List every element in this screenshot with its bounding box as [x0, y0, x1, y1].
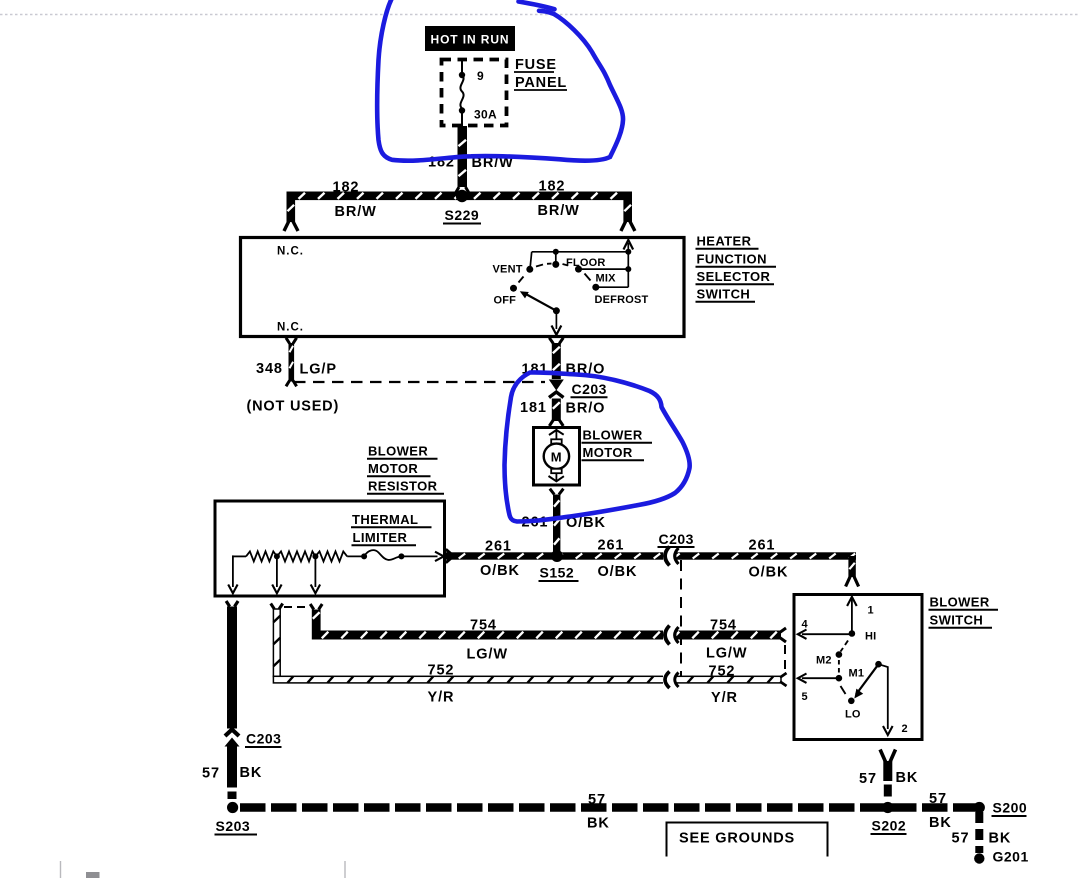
svg-text:SELECTOR: SELECTOR: [697, 269, 771, 284]
svg-text:57: 57: [859, 771, 877, 787]
resistor feed line left: [233, 555, 246, 557]
svg-text:752: 752: [709, 664, 736, 680]
ground G201 dot: [974, 853, 984, 863]
181 lower bottom flare: [549, 420, 563, 426]
bus 261 O/BK horizontal: [445, 552, 856, 559]
dashed connector tie below resistor box: [284, 606, 308, 608]
svg-text:LO: LO: [845, 709, 861, 721]
motor bottom lead: [555, 473, 557, 482]
splice S152: [551, 550, 563, 562]
fuse F9 30A element: [459, 59, 465, 126]
wire 752 stub flare at resistor box: [271, 604, 283, 610]
svg-text:O/BK: O/BK: [749, 565, 789, 581]
blower motor box: [534, 428, 580, 486]
wiper pivot dot: [553, 307, 560, 314]
wire 181 BR/O lower: [552, 399, 561, 422]
wire 348 LG/P (not used): [289, 343, 295, 382]
switch feed arrow up (pin at top right): [624, 240, 634, 250]
resistor element R2: [277, 551, 316, 561]
svg-text:RESISTOR: RESISTOR: [368, 479, 438, 494]
LO contact: [848, 698, 855, 705]
wiper arrowhead: [520, 291, 529, 298]
svg-text:182: 182: [539, 179, 566, 195]
motor body circle M: [544, 444, 569, 469]
dash M2-M1 a: [838, 660, 840, 665]
wire 754 LG/W horizontal: [312, 631, 781, 640]
348 top flare: [286, 338, 297, 344]
heater function selector switch box: [241, 238, 685, 337]
wire 754 stub flare at resistor box: [310, 604, 322, 610]
resistor element R3: [315, 551, 347, 561]
thermal limiter node right: [398, 553, 404, 559]
svg-text:57: 57: [952, 831, 970, 847]
power source label HOT IN RUN: [425, 26, 515, 51]
left leg arrow: [228, 585, 237, 594]
wiper arm: [856, 664, 879, 694]
svg-text:57: 57: [202, 766, 220, 782]
splice S200: [974, 802, 985, 813]
output arrow down at box bottom: [552, 326, 562, 335]
tap node 2: [312, 553, 318, 559]
wire 181 BR/O upper: [552, 343, 561, 379]
FLOOR contact: [552, 261, 559, 268]
connector C203 dashed vertical: [680, 560, 682, 676]
svg-text:S152: S152: [540, 565, 575, 581]
output line to box edge: [401, 555, 437, 557]
svg-text:754: 754: [470, 618, 497, 634]
svg-text:9: 9: [477, 69, 484, 83]
right corner flare: [621, 220, 635, 231]
label S229: [443, 207, 481, 224]
svg-text:BK: BK: [587, 816, 610, 832]
bus wire 182 BR/W horizontal: [287, 192, 633, 201]
svg-text:O/BK: O/BK: [598, 564, 638, 580]
svg-text:M2: M2: [816, 655, 832, 667]
svg-text:N.C.: N.C.: [277, 246, 304, 258]
svg-text:BLOWER: BLOWER: [583, 428, 643, 443]
motor top chevron arrow: [549, 430, 564, 435]
wire 57 BK below switch: [883, 761, 892, 781]
svg-text:752: 752: [428, 663, 455, 679]
node dot on top wire: [553, 249, 559, 255]
blue annotation loop around blower motor: [505, 372, 690, 521]
dashed tie between 754 and 752 flares: [784, 645, 786, 671]
wire 57 BK below switch flare: [880, 750, 895, 763]
wire 752 stub down (outlined): [273, 609, 280, 677]
flare onto S229: [456, 187, 470, 193]
pin 2 arrow down: [883, 726, 893, 735]
rotary arc dash FLOOR-MIX: [563, 264, 569, 266]
svg-text:(NOT USED): (NOT USED): [247, 399, 340, 415]
svg-text:1: 1: [868, 605, 874, 617]
rotary arc dash MIX-DEFROST: [585, 274, 591, 281]
svg-text:BLOWER: BLOWER: [930, 595, 990, 610]
M2 contact: [836, 651, 843, 658]
pin 2 wire: [879, 664, 888, 729]
svg-text:M: M: [551, 449, 562, 464]
blue annotation loop around fuse panel: [377, 0, 623, 161]
tap 1 arrow: [272, 585, 281, 594]
switch pin 1 arrow up: [847, 597, 857, 606]
dash HI-M2 b: [841, 648, 844, 652]
svg-text:FUNCTION: FUNCTION: [697, 252, 767, 267]
tap 2 leg down: [314, 556, 316, 587]
scan artifact gray line left: [60, 861, 62, 878]
wire 57 BK to G201 dashed: [975, 812, 983, 853]
splice S202: [882, 802, 893, 813]
svg-text:754: 754: [710, 618, 737, 634]
svg-text:348: 348: [256, 361, 283, 377]
wiper arrowhead: [854, 689, 863, 699]
node dot top right: [625, 249, 631, 255]
connector C203 dashed line: [294, 381, 545, 383]
wire 57 BK dash above S203: [228, 792, 237, 800]
pin 1 wire: [851, 599, 853, 631]
corner flare to blower switch: [846, 576, 859, 587]
ground bus 57 BK dashed: [240, 803, 979, 811]
svg-text:Y/R: Y/R: [711, 690, 738, 706]
svg-text:Y/R: Y/R: [428, 690, 455, 706]
svg-text:PANEL: PANEL: [515, 75, 567, 91]
svg-text:2: 2: [902, 723, 908, 735]
wiper output line down: [555, 311, 557, 329]
bus right corner wire: [623, 192, 632, 223]
left corner flare: [284, 220, 298, 231]
C203 connector break on 754: [663, 626, 679, 645]
C203 female chevron: [549, 392, 564, 398]
rotary arc dash VENT-FLOOR a: [536, 265, 543, 267]
svg-text:DEFROST: DEFROST: [595, 294, 649, 306]
wire 57 BK dash: [884, 785, 892, 797]
svg-text:SWITCH: SWITCH: [697, 287, 751, 302]
C203 connector break on 261 bus: [663, 547, 679, 566]
wiper arm toward OFF: [524, 293, 556, 311]
label C203: [571, 381, 608, 397]
C203 female chevron on 57 BK: [225, 730, 239, 737]
svg-text:57: 57: [588, 792, 606, 808]
181 upper top flare: [549, 338, 563, 344]
svg-text:LG/W: LG/W: [706, 646, 747, 662]
tap node 1: [274, 553, 280, 559]
svg-text:BR/O: BR/O: [566, 401, 606, 417]
MIX contact: [575, 266, 582, 273]
svg-text:57: 57: [929, 791, 947, 807]
wire 752 Y/R horizontal (outlined): [273, 676, 781, 683]
blower motor resistor label: [367, 444, 444, 494]
svg-text:LG/W: LG/W: [467, 647, 508, 663]
wire 57 BK left flare: [226, 601, 238, 607]
fuse panel dashed box: [442, 60, 507, 126]
bus 261 right corner down: [848, 556, 855, 577]
svg-text:HI: HI: [865, 631, 876, 643]
wire DEFROST contact to right rail: [596, 286, 629, 288]
svg-text:MOTOR: MOTOR: [368, 461, 418, 476]
svg-text:BR/W: BR/W: [335, 204, 377, 220]
wire to thermal limiter: [347, 555, 364, 557]
svg-text:C203: C203: [572, 381, 607, 397]
svg-text:BK: BK: [929, 815, 952, 831]
label C203 lower: [245, 731, 282, 748]
wire 261 motor to S152: [553, 495, 560, 553]
svg-text:BK: BK: [989, 831, 1012, 847]
svg-text:FLOOR: FLOOR: [566, 257, 606, 269]
svg-text:BK: BK: [896, 770, 919, 786]
svg-text:O/BK: O/BK: [480, 563, 520, 579]
svg-text:261: 261: [485, 539, 512, 555]
bus 261 left flare at resistor box: [446, 549, 452, 562]
pin 5 wire: [802, 677, 837, 679]
node dot mid right: [625, 266, 631, 272]
label S203: [215, 818, 258, 835]
pin 4 wire: [802, 633, 850, 635]
wire 261 motor to S152 top flare: [550, 489, 564, 495]
wiper pivot dot: [875, 661, 882, 668]
svg-text:THERMAL: THERMAL: [352, 512, 418, 527]
svg-text:LIMITER: LIMITER: [353, 530, 408, 545]
scan artifact gray square: [86, 872, 100, 878]
blower switch label: [929, 595, 999, 628]
output arrow right: [435, 552, 444, 561]
svg-text:SEE GROUNDS: SEE GROUNDS: [679, 831, 795, 847]
svg-text:182: 182: [333, 180, 360, 196]
motor brush block bottom: [551, 469, 562, 473]
thermal limiter label: [351, 512, 432, 545]
dash HI-M2 a: [845, 641, 848, 646]
HI contact: [849, 630, 856, 637]
svg-text:S202: S202: [872, 818, 907, 834]
svg-text:HEATER: HEATER: [697, 234, 752, 249]
svg-text:30A: 30A: [474, 108, 497, 122]
wire top horizontal: [532, 251, 629, 253]
resistor element R1: [246, 551, 277, 561]
C203 male arrow down: [549, 380, 564, 391]
svg-text:MOTOR: MOTOR: [583, 445, 633, 460]
VENT contact: [526, 266, 533, 273]
svg-text:BLOWER: BLOWER: [368, 444, 428, 459]
label S200: [992, 800, 1028, 817]
M1 contact: [836, 675, 843, 682]
tap 1 leg down: [276, 556, 278, 587]
svg-text:C203: C203: [659, 531, 694, 547]
motor bottom chevron arrow: [549, 476, 564, 481]
OFF contact: [510, 285, 517, 292]
wire drop to VENT contact: [530, 252, 532, 267]
thermal limiter element: [364, 550, 401, 560]
see grounds box: [667, 823, 828, 857]
752 right end flare: [780, 673, 787, 686]
svg-text:181: 181: [520, 400, 547, 416]
svg-text:261: 261: [749, 538, 776, 554]
label C203 bus: [658, 531, 695, 547]
svg-text:S200: S200: [993, 800, 1028, 816]
pin 5 arrow left: [798, 674, 807, 683]
fuse panel label: [514, 57, 567, 91]
svg-text:SWITCH: SWITCH: [930, 613, 984, 628]
scan artifact gray line mid: [344, 861, 346, 878]
dash M1-LO: [841, 686, 846, 694]
svg-text:261: 261: [598, 538, 625, 554]
rotary arc dash VENT-FLOOR b: [547, 263, 552, 265]
resistor left leg down: [232, 555, 234, 587]
svg-text:4: 4: [802, 619, 809, 631]
dash M2-M1 b: [838, 668, 840, 673]
svg-text:M1: M1: [849, 668, 865, 680]
splice S229: [456, 190, 468, 202]
rotary arc dash OFF-VENT: [519, 277, 524, 283]
label S152: [539, 565, 579, 582]
svg-text:S229: S229: [445, 207, 480, 223]
motor top lead: [555, 430, 557, 440]
348 bottom flare: [286, 381, 297, 387]
wire drop to FLOOR contact: [555, 252, 557, 262]
DEFROST contact: [592, 284, 599, 291]
svg-text:VENT: VENT: [493, 264, 523, 276]
wire 57 BK to S203: [227, 747, 237, 788]
scan page divider line: [0, 14, 1080, 16]
svg-text:BK: BK: [240, 765, 263, 781]
pin 4 arrow left: [798, 630, 807, 639]
tap 2 arrow: [311, 585, 320, 594]
wire 57 BK left vertical: [227, 607, 237, 729]
thermal limiter / resistor box: [215, 501, 445, 596]
motor brush block top: [551, 439, 562, 443]
label S202: [871, 818, 907, 835]
wire MIX contact to right rail: [579, 268, 629, 270]
C203 male arrow up on 57 BK: [225, 738, 240, 747]
svg-text:G201: G201: [993, 849, 1029, 865]
svg-text:N.C.: N.C.: [277, 322, 304, 334]
svg-text:HOT IN RUN: HOT IN RUN: [431, 33, 510, 47]
blower switch box: [794, 595, 922, 740]
svg-text:BR/W: BR/W: [538, 203, 580, 219]
bus left corner wire: [287, 192, 296, 223]
svg-text:C203: C203: [246, 731, 281, 747]
svg-text:LG/P: LG/P: [300, 362, 337, 378]
C203 connector break on 752: [663, 672, 679, 689]
svg-text:S203: S203: [216, 818, 251, 834]
splice S203: [227, 802, 238, 813]
svg-text:MIX: MIX: [596, 273, 617, 285]
svg-text:OFF: OFF: [494, 295, 517, 307]
wire 754 stub down: [312, 610, 321, 631]
blue annotation short stroke: [519, 2, 555, 10]
switch right vertical wire: [627, 243, 629, 287]
thermal limiter node left: [361, 553, 367, 559]
754 right end flare: [780, 628, 787, 642]
svg-text:FUSE: FUSE: [515, 57, 557, 73]
heater switch title: [696, 234, 777, 302]
svg-text:5: 5: [802, 691, 808, 703]
wire 182 BR/W fuse panel to S229: [458, 126, 468, 187]
blower motor label: [582, 428, 653, 461]
